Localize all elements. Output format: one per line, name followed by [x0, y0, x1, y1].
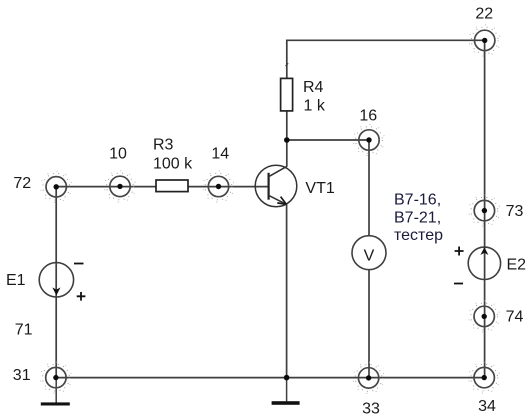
- svg-text:В7-21,: В7-21,: [394, 209, 441, 226]
- svg-text:10: 10: [109, 146, 127, 163]
- svg-text:31: 31: [13, 367, 31, 384]
- svg-text:14: 14: [211, 146, 229, 163]
- svg-text:33: 33: [362, 401, 380, 416]
- svg-text:В7-16,: В7-16,: [394, 192, 441, 209]
- svg-text:73: 73: [506, 203, 524, 220]
- svg-text:R3: R3: [153, 137, 174, 154]
- svg-text:тестер: тестер: [394, 227, 443, 244]
- svg-text:VT1: VT1: [305, 180, 334, 197]
- svg-text:E1: E1: [6, 272, 26, 289]
- svg-text:V: V: [364, 248, 375, 265]
- svg-text:16: 16: [359, 107, 377, 124]
- svg-text:22: 22: [475, 5, 493, 22]
- svg-text:71: 71: [15, 321, 33, 338]
- svg-text:72: 72: [13, 175, 31, 192]
- svg-text:34: 34: [478, 398, 496, 415]
- svg-text:1 k: 1 k: [304, 97, 326, 114]
- svg-text:E2: E2: [507, 256, 527, 273]
- svg-text:R4: R4: [303, 79, 324, 96]
- svg-text:100 k: 100 k: [153, 156, 193, 173]
- svg-text:74: 74: [506, 309, 524, 326]
